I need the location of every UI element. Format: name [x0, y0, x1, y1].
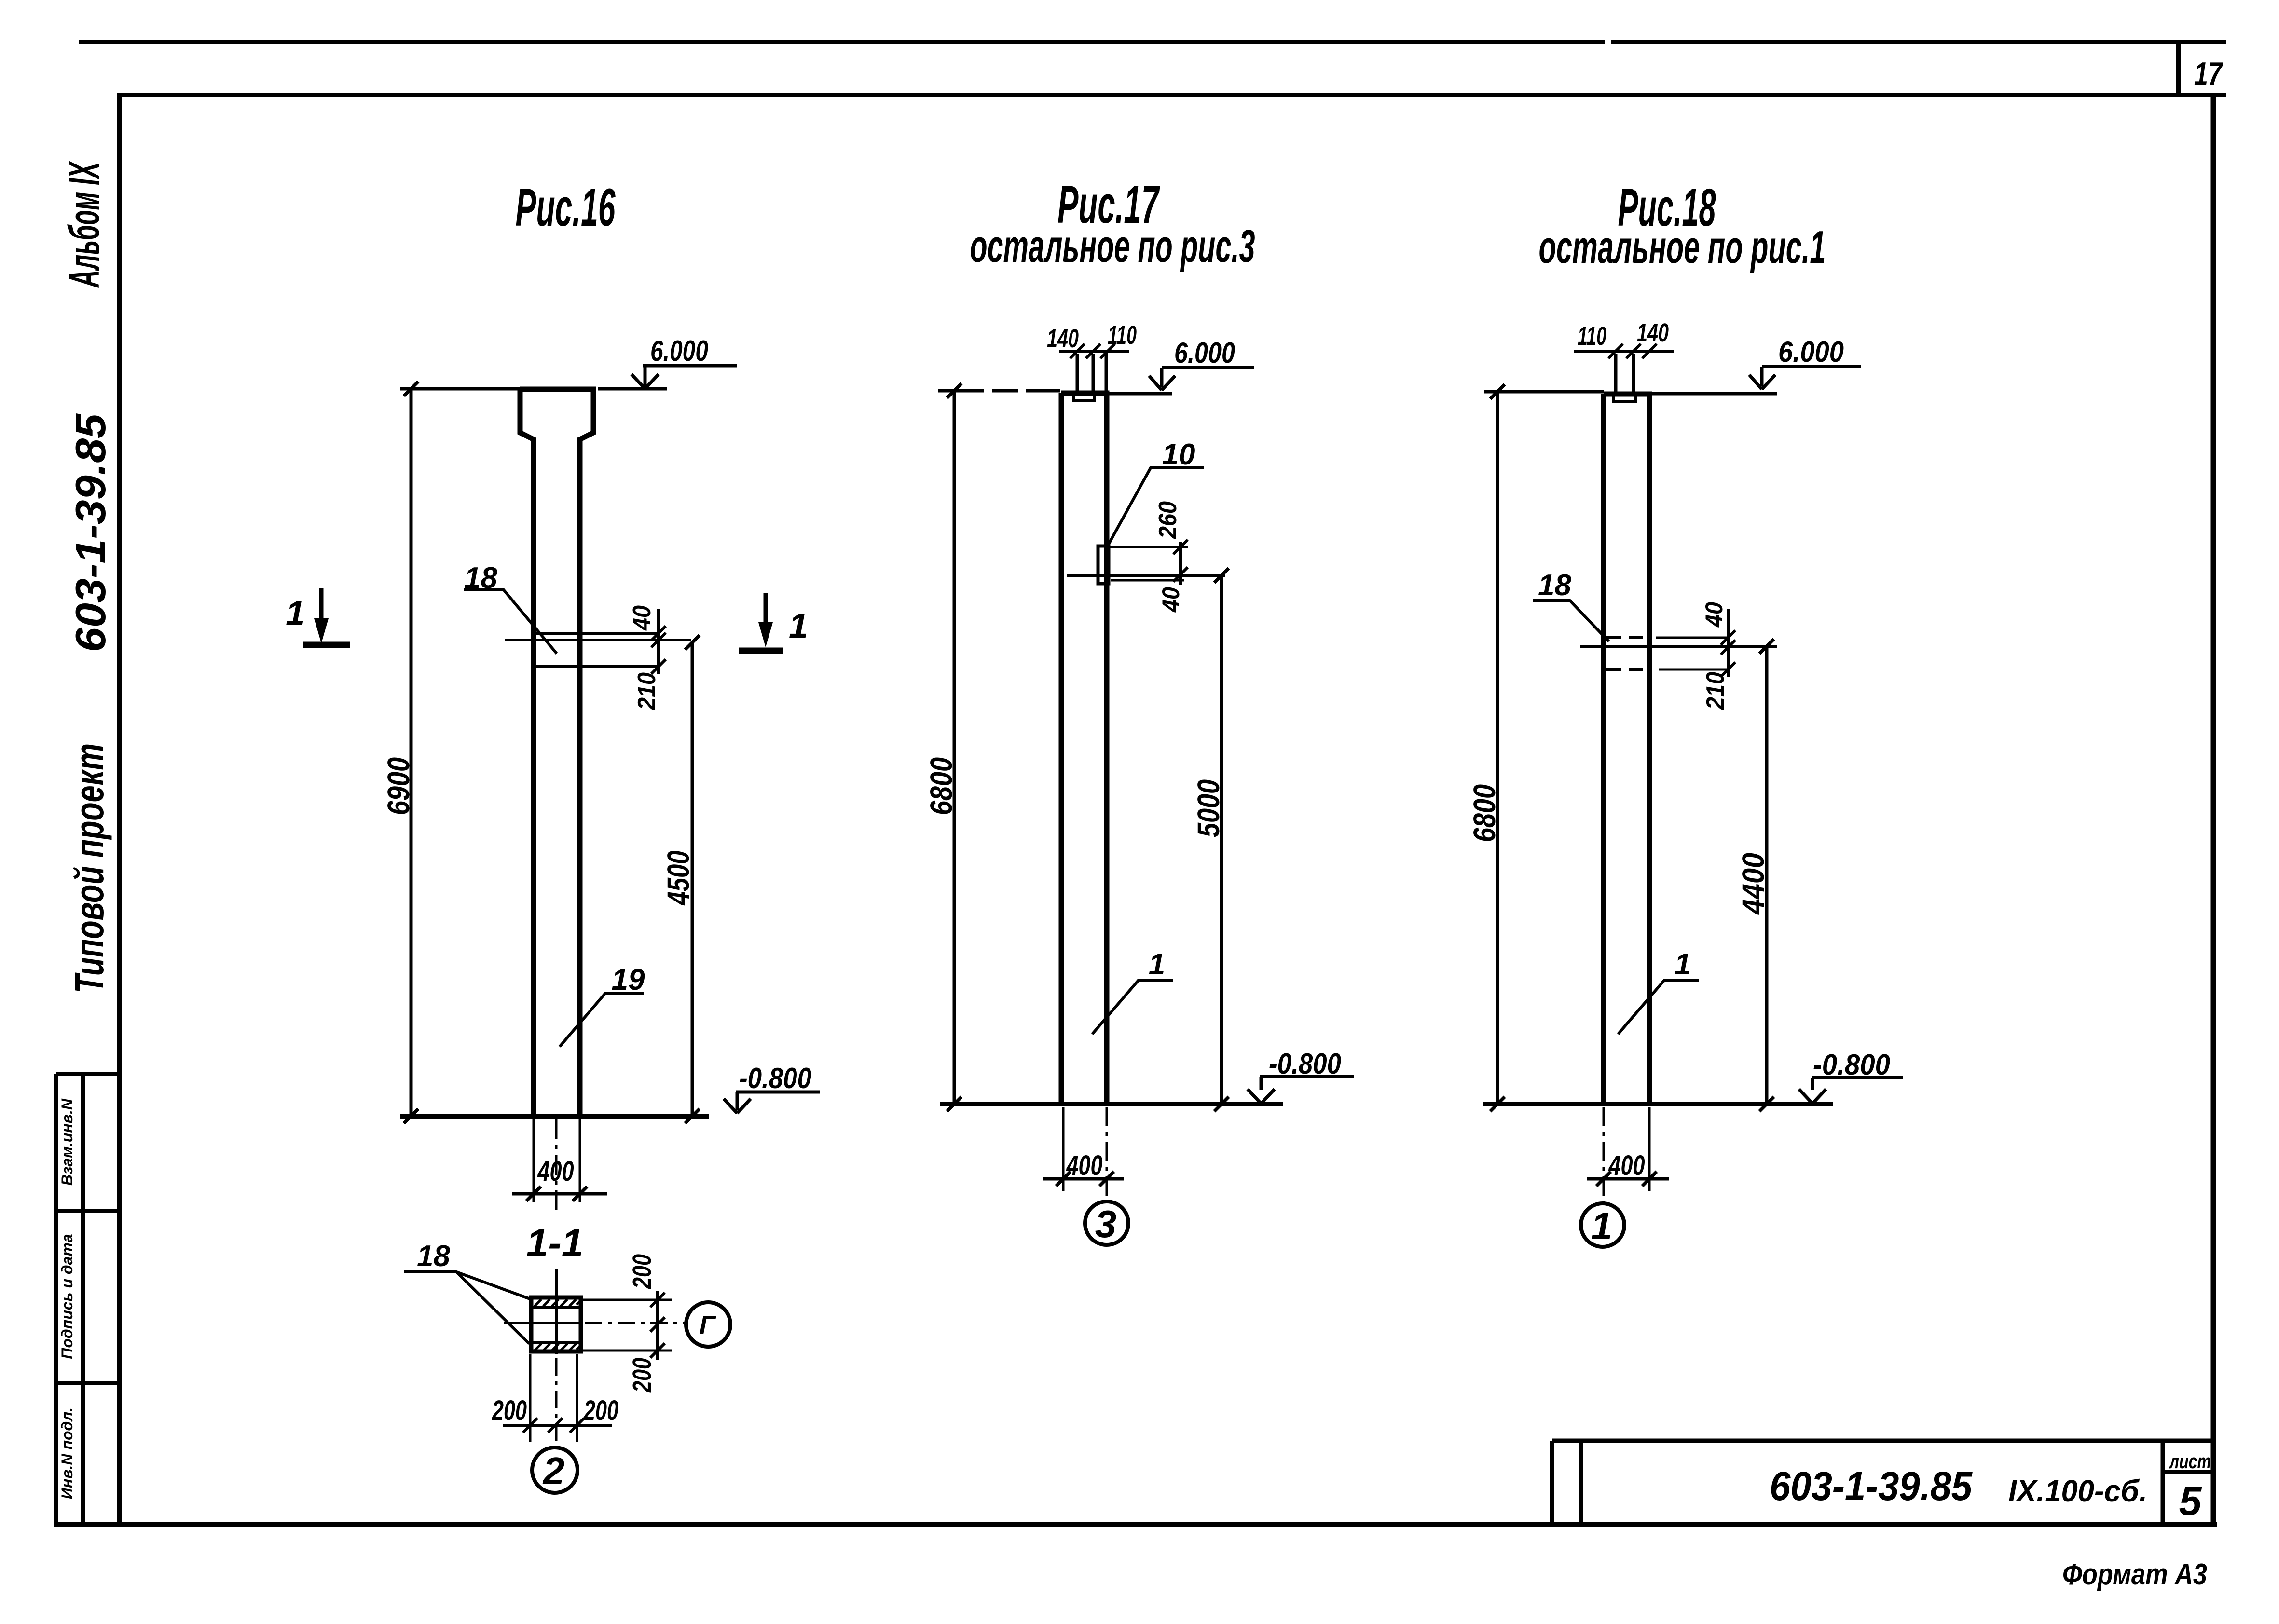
vertical centerline — [555, 1269, 558, 1354]
elevation mark 6.000 — [1149, 368, 1254, 390]
plate strips — [531, 1307, 581, 1343]
svg-text:18: 18 — [1538, 569, 1571, 602]
ground line — [400, 1114, 709, 1119]
svg-text:остальное по рис.1: остальное по рис.1 — [1539, 221, 1826, 273]
svg-text:200: 200 — [628, 1358, 657, 1393]
console plate 10 — [1098, 546, 1109, 584]
hidden joint lower — [1606, 668, 1652, 671]
svg-text:2: 2 — [542, 1449, 565, 1492]
dim line 6800 — [1490, 384, 1505, 1111]
grid mark 3 — [1085, 1201, 1128, 1245]
elevation mark 6.000 — [632, 366, 737, 389]
svg-text:40: 40 — [1157, 587, 1184, 613]
svg-text:3: 3 — [1095, 1202, 1117, 1245]
left stamp boxes — [56, 1074, 120, 1524]
column 1 outline — [1061, 393, 1107, 1104]
dim 400 — [534, 1116, 580, 1202]
top level line — [938, 391, 1172, 394]
svg-text:1: 1 — [1675, 948, 1691, 981]
svg-text:IX.100-сб.: IX.100-сб. — [2008, 1474, 2147, 1508]
svg-text:10: 10 — [1162, 438, 1195, 471]
svg-text:17: 17 — [2194, 55, 2223, 92]
svg-text:6900: 6900 — [381, 757, 416, 815]
svg-text:Подпись и дата: Подпись и дата — [58, 1234, 76, 1359]
section mark 1 right — [739, 648, 783, 654]
svg-text:Рис.16: Рис.16 — [516, 178, 616, 237]
FIGURE 17 — [924, 175, 1354, 1245]
svg-text:1: 1 — [1149, 948, 1165, 981]
dim 400 — [1062, 1107, 1065, 1191]
top level line — [400, 387, 667, 391]
hatch top plate — [535, 1299, 581, 1306]
dim line 6800 — [947, 383, 961, 1111]
anchor pin — [1077, 351, 1106, 392]
svg-text:Формат А3: Формат А3 — [2062, 1558, 2207, 1591]
elevation mark 6.000 — [1749, 367, 1861, 389]
svg-text:1: 1 — [789, 607, 808, 645]
svg-text:210: 210 — [633, 672, 661, 710]
hidden joint upper — [1606, 636, 1652, 639]
top band line — [79, 40, 2226, 44]
svg-text:6800: 6800 — [1467, 784, 1502, 842]
svg-text:5: 5 — [2179, 1478, 2202, 1524]
joint lines — [505, 633, 691, 667]
svg-text:остальное по рис.3: остальное по рис.3 — [970, 220, 1255, 272]
column axis centerline — [555, 1119, 558, 1210]
bottom dim 200/200 — [530, 1354, 577, 1442]
top notch — [1074, 395, 1094, 400]
column 1 outline — [1604, 394, 1649, 1104]
svg-text:Взам.инв.N: Взам.инв.N — [58, 1098, 76, 1186]
grid mark 1 — [1581, 1203, 1624, 1247]
svg-text:6.000: 6.000 — [1174, 337, 1235, 369]
grid mark Г — [686, 1302, 730, 1347]
svg-text:Типовой проект: Типовой проект — [67, 743, 112, 993]
svg-text:40: 40 — [628, 605, 656, 631]
svg-text:40: 40 — [1701, 602, 1728, 628]
svg-text:6800: 6800 — [924, 757, 959, 815]
svg-text:Альбом IX: Альбом IX — [60, 161, 109, 288]
svg-text:603-1-39.85: 603-1-39.85 — [67, 413, 114, 652]
page number box divider — [2176, 42, 2181, 95]
section mark 1 left — [303, 642, 350, 648]
dim line 6900 — [404, 382, 418, 1123]
FIGURE 16 — [286, 178, 820, 1210]
dim 400 — [1648, 1107, 1651, 1191]
column 19 outline — [520, 389, 593, 1116]
svg-text:-0.800: -0.800 — [739, 1062, 811, 1094]
svg-text:5000: 5000 — [1191, 779, 1226, 837]
svg-text:Г: Г — [699, 1311, 716, 1340]
elevation mark -0.800 — [1799, 1078, 1903, 1104]
hatch bottom plate — [535, 1344, 581, 1351]
dim line 5000 — [1214, 568, 1229, 1111]
svg-text:6.000: 6.000 — [1778, 336, 1844, 368]
dim line 4400 — [1759, 639, 1774, 1111]
svg-text:400: 400 — [1066, 1150, 1103, 1181]
top dim line with ticks — [1059, 344, 1129, 358]
dim line 4500 — [685, 635, 700, 1123]
horizontal centerline — [504, 1322, 581, 1324]
svg-text:лист: лист — [2169, 1450, 2211, 1473]
svg-text:400: 400 — [1608, 1150, 1645, 1181]
ground line — [940, 1102, 1283, 1106]
svg-text:1-1: 1-1 — [526, 1221, 584, 1265]
level line at console — [1067, 574, 1225, 577]
svg-text:260: 260 — [1154, 501, 1182, 539]
svg-text:140: 140 — [1637, 318, 1669, 347]
svg-text:140: 140 — [1047, 324, 1079, 353]
title block — [1552, 1441, 2213, 1524]
elevation mark -0.800 — [1248, 1077, 1354, 1104]
column axis to grid mark — [1603, 1107, 1605, 1203]
svg-text:200: 200 — [628, 1254, 657, 1289]
SECTION 1-1 — [404, 1221, 730, 1493]
FIGURE 18 — [1467, 178, 1903, 1247]
svg-text:4400: 4400 — [1736, 853, 1771, 915]
grid mark 2 — [532, 1447, 577, 1493]
column axis to grid mark — [1106, 1107, 1108, 1201]
elevation mark -0.800 — [724, 1092, 820, 1113]
section square outline — [531, 1297, 581, 1351]
svg-text:603-1-39.85: 603-1-39.85 — [1770, 1463, 1973, 1509]
level line at joint — [1580, 645, 1777, 648]
right dim 200/200 — [582, 1300, 672, 1351]
svg-text:19: 19 — [612, 963, 645, 996]
ground line — [1483, 1102, 1833, 1106]
svg-text:18: 18 — [417, 1240, 450, 1273]
svg-text:1: 1 — [286, 594, 305, 633]
top notch — [1614, 396, 1635, 401]
svg-text:200: 200 — [492, 1395, 527, 1426]
svg-text:4500: 4500 — [661, 851, 696, 906]
anchor pin — [1616, 354, 1634, 392]
svg-text:110: 110 — [1578, 322, 1606, 351]
svg-text:Инв.N подл.: Инв.N подл. — [58, 1407, 76, 1499]
svg-text:210: 210 — [1702, 672, 1730, 710]
top dim line with ticks — [1574, 344, 1674, 358]
svg-text:6.000: 6.000 — [650, 335, 708, 367]
top level line — [1484, 392, 1777, 394]
svg-text:1: 1 — [1591, 1204, 1613, 1247]
svg-text:200: 200 — [583, 1395, 618, 1426]
